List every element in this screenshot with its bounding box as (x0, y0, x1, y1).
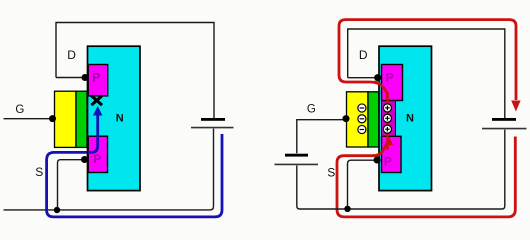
red wire overlay: into bottom P (373, 143, 387, 156)
wire: black top loop (348, 29, 505, 118)
wire: drain top loop to battery (56, 23, 214, 119)
battery B1 bottom plate (thin) (191, 127, 234, 129)
red wire: battery to source loop (337, 137, 515, 217)
wire: source lead right (348, 160, 378, 207)
svg-text:G: G (15, 104, 24, 116)
wire: source lead (58, 160, 85, 208)
node: source contact right (374, 157, 381, 164)
carrier: electron 2 in gate (358, 115, 366, 123)
node: gate contact right (343, 115, 350, 122)
node: drain contact (82, 74, 89, 81)
carrier: hole 1 in channel (383, 104, 391, 112)
P region top (88, 65, 108, 96)
carrier: hole 3 in channel (383, 125, 391, 133)
N region (cyan) (88, 46, 141, 190)
gate metal right (yellow) (347, 92, 369, 147)
node: drain contact right (374, 74, 381, 81)
wire: battery B2 to bottom rail (297, 130, 505, 209)
node: bottom junction (54, 207, 60, 213)
N region right (cyan) (379, 46, 432, 190)
red arrowhead up in bottom P (384, 137, 393, 146)
svg-text:P: P (92, 70, 100, 84)
gate insulator (green) (76, 91, 87, 147)
svg-text:N: N (116, 112, 124, 124)
wire: drain contact stub (56, 77, 83, 79)
wire: drain contact stub right (348, 77, 376, 79)
P region bottom right (382, 136, 402, 172)
svg-text:P: P (384, 154, 392, 168)
node: gate contact (49, 115, 56, 122)
battery B2 top plate (thick) (492, 118, 516, 121)
carrier: hole 2 in channel (383, 114, 391, 122)
battery B1 top plate (thick) (201, 118, 225, 121)
svg-text:D: D (67, 48, 76, 62)
carrier: electron 1 in gate (358, 104, 366, 112)
wire: gate lead right (297, 120, 344, 154)
gate battery B3 top plate (thick) (285, 154, 308, 157)
svg-text:P: P (386, 70, 394, 84)
induced P channel strip (382, 100, 396, 136)
gate battery B3 bottom plate (thin) (275, 163, 319, 165)
red channel line under carriers (386, 92, 388, 150)
svg-text:D: D (359, 48, 368, 62)
svg-text:S: S (35, 165, 43, 179)
red wire: D contact into P (339, 75, 387, 104)
red wire: top loop with battery (339, 20, 516, 100)
svg-text:N: N (406, 112, 414, 124)
red wire overlay: into top P (374, 82, 387, 100)
wire: battery negative to bottom rail (4, 129, 214, 210)
carrier: electron 3 in gate (358, 125, 366, 133)
P region bottom (88, 136, 107, 172)
gate metal (yellow) (55, 91, 77, 147)
svg-text:G: G (307, 104, 316, 116)
P region top right (382, 65, 403, 101)
X mark: channel blocked (91, 96, 102, 105)
wire: gate lead (4, 118, 51, 120)
node: bottom junction right (344, 206, 350, 212)
blue wire: source-battery current path (47, 134, 222, 217)
blue arrowhead (93, 106, 102, 116)
node: source contact (81, 156, 88, 163)
svg-text:P: P (93, 152, 101, 166)
red arrowhead down (511, 101, 520, 112)
svg-text:S: S (327, 165, 335, 179)
blue arrow shaft over P bottom (88, 114, 98, 152)
battery B2 bottom plate (thin) (482, 128, 527, 130)
gate insulator right (green) (368, 92, 379, 147)
